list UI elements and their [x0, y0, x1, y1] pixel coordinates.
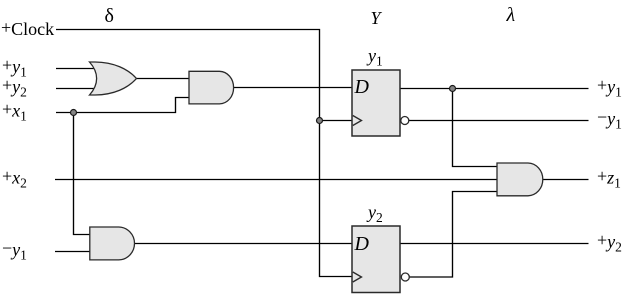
junction dot clock node	[317, 118, 323, 124]
wire FF2 Q to +y2 output	[400, 243, 589, 245]
and-gate AND3	[497, 163, 543, 196]
svg-text:+Clock: +Clock	[1, 18, 54, 40]
junction dot y1 output node	[450, 86, 456, 92]
flip-flop U2 y2 box	[352, 226, 400, 293]
wire AND3 output to +z1	[543, 179, 589, 181]
svg-text:δ: δ	[105, 5, 114, 27]
wire +x2 input to AND3	[55, 179, 497, 181]
svg-text:y2: y2	[366, 202, 383, 225]
wire -y1 input to AND2	[55, 251, 90, 253]
svg-text:Y: Y	[371, 8, 383, 28]
wire FF2 Qbar up to AND3	[409, 192, 497, 278]
wire AND2 output to FF2 D	[135, 243, 353, 245]
flip-flop U1 Qbar bubble	[401, 117, 409, 125]
flip-flop U2 Qbar bubble	[401, 273, 409, 281]
svg-text:+x1: +x1	[2, 99, 27, 124]
junction dot node x1	[71, 110, 77, 116]
wire +x1 input to AND1	[56, 98, 189, 113]
wire clock branch to FF1	[320, 120, 353, 122]
wire x1 branch down to AND2	[74, 113, 91, 235]
flip-flop U1 y1 box	[352, 70, 400, 136]
wire OR1 output to AND1	[136, 78, 189, 80]
svg-text:+y1: +y1	[597, 75, 622, 100]
flip-flop U2 clock triangle pin	[353, 272, 362, 282]
svg-text:−y1: −y1	[597, 107, 622, 132]
and-gate AND1	[189, 71, 234, 104]
wire +y1 input	[56, 68, 98, 70]
svg-text:+y2: +y2	[597, 230, 622, 255]
wire FF1 Qbar to -y1 output	[409, 120, 589, 122]
svg-text:−y1: −y1	[2, 238, 27, 263]
svg-text:λ: λ	[506, 4, 516, 26]
svg-text:y1: y1	[366, 46, 383, 69]
flip-flop U1 clock triangle pin	[353, 116, 362, 126]
wire +y1 branch down to AND3	[453, 89, 498, 167]
wire clock horizontal and trunk	[56, 30, 352, 277]
wire +y2 input	[56, 88, 98, 90]
wire FF1 Q to +y1 output	[400, 88, 589, 90]
wire AND1 output to FF1 D	[234, 87, 353, 89]
svg-text:+x2: +x2	[2, 166, 27, 191]
or-gate OR1	[90, 62, 137, 95]
and-gate AND2	[90, 227, 135, 260]
svg-text:+z1: +z1	[597, 166, 621, 191]
svg-text:D: D	[354, 76, 370, 98]
svg-text:D: D	[354, 233, 370, 255]
